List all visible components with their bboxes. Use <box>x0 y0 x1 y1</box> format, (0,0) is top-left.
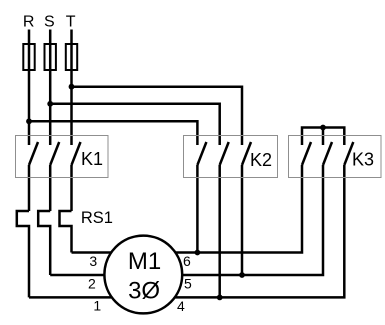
svg-text:3Ø: 3Ø <box>128 278 160 305</box>
svg-text:M1: M1 <box>128 248 161 275</box>
svg-text:2: 2 <box>88 276 96 292</box>
svg-text:3: 3 <box>89 253 97 269</box>
svg-text:R: R <box>23 13 35 30</box>
svg-text:T: T <box>66 13 76 30</box>
svg-text:K2: K2 <box>250 150 272 170</box>
svg-text:5: 5 <box>184 276 192 292</box>
svg-text:RS1: RS1 <box>81 209 113 227</box>
svg-text:4: 4 <box>177 298 185 314</box>
svg-text:S: S <box>44 13 55 30</box>
svg-text:K3: K3 <box>352 150 374 170</box>
svg-text:6: 6 <box>183 253 191 269</box>
svg-text:1: 1 <box>93 297 101 313</box>
svg-text:K1: K1 <box>81 149 103 169</box>
